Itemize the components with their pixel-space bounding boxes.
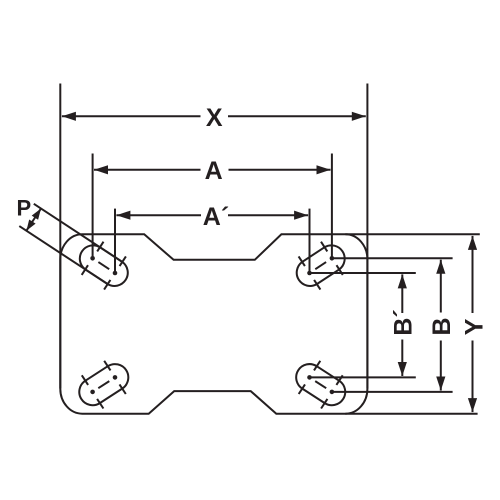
A-prime dimension right arrow: [294, 211, 308, 220]
A-prime dimension line right segment: [228, 214, 308, 216]
A dimension line right segment: [229, 169, 331, 171]
svg-text:X: X: [206, 104, 223, 132]
slot hole top-right: [297, 245, 345, 286]
X left extension line (plate left edge extended): [59, 84, 61, 389]
Y bottom extension line (plate bottom edge extended): [345, 413, 477, 415]
B-prime dimension line bottom segment: [401, 340, 403, 377]
A-prime right extension line: [309, 209, 311, 273]
svg-text:B´: B´: [390, 309, 418, 335]
B bottom extension line: [332, 391, 453, 393]
X dimension line left segment: [62, 115, 201, 117]
plate outline with top and bottom notches: [60, 234, 367, 413]
P dimension lower tangent extension line: [19, 226, 107, 284]
B-prime dimension top arrow: [398, 274, 407, 288]
slot hole bottom-left: [79, 364, 128, 405]
svg-text:A: A: [205, 157, 223, 185]
X right extension line (plate right edge extended): [366, 84, 368, 389]
Y dimension line bottom segment: [472, 341, 474, 413]
slot hole top-left: [80, 245, 128, 286]
X dimension left arrow: [62, 112, 76, 121]
svg-text:B: B: [428, 317, 456, 335]
slot hole bottom-right: [296, 364, 345, 405]
X dimension line right segment: [228, 115, 366, 117]
A right extension line: [331, 154, 333, 259]
A dimension left arrow: [94, 165, 108, 174]
B-prime bottom extension line: [310, 376, 416, 378]
B dimension top arrow: [436, 260, 445, 274]
Y dimension top arrow: [468, 236, 477, 250]
P dimension upper tangent extension line: [34, 204, 123, 262]
A-prime dimension left arrow: [116, 211, 130, 220]
B-prime dimension line top segment: [401, 274, 403, 313]
svg-text:P: P: [16, 196, 31, 221]
A left extension line: [92, 154, 94, 259]
Y dimension line top segment: [472, 236, 474, 313]
B-prime dimension bottom arrow: [398, 362, 407, 376]
A-prime left extension line: [114, 209, 116, 273]
Y dimension bottom arrow: [468, 398, 477, 412]
A dimension right arrow: [317, 165, 331, 174]
B dimension bottom arrow: [436, 377, 445, 391]
Y top extension line (plate top edge extended): [345, 233, 479, 235]
svg-text:Y: Y: [461, 318, 489, 335]
X dimension right arrow: [352, 112, 366, 121]
A-prime dimension line left segment: [116, 214, 201, 216]
svg-text:A´: A´: [203, 203, 229, 231]
B-prime top extension line: [310, 272, 416, 274]
B dimension line top segment: [440, 260, 442, 313]
B dimension line bottom segment: [440, 341, 442, 391]
A dimension line left segment: [94, 169, 201, 171]
P dimension double arrow: [26, 209, 41, 231]
B top extension line: [332, 257, 453, 259]
